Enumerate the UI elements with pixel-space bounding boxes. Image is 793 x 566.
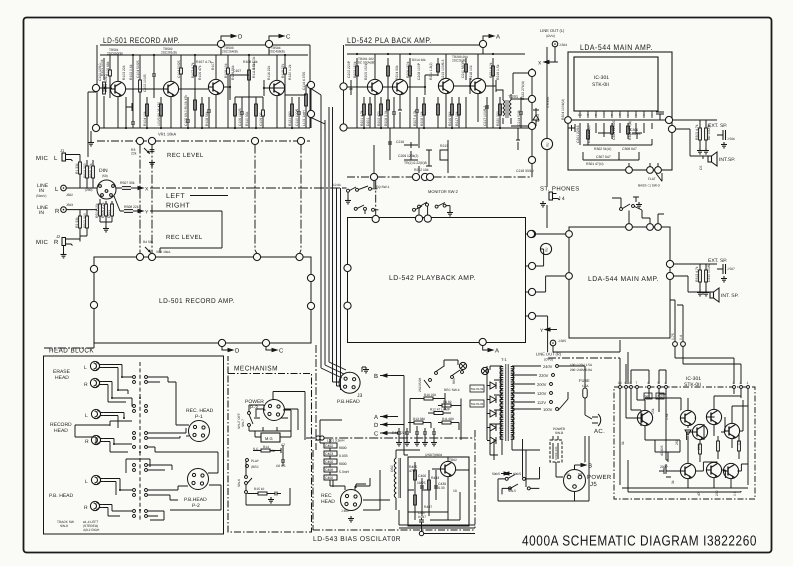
svg-text:C104 50/25: C104 50/25 <box>136 60 140 78</box>
vu meter upper <box>541 138 552 149</box>
svg-text:R206 150k: R206 150k <box>406 61 410 78</box>
svg-text:BASS ⊂| SW-3: BASS ⊂| SW-3 <box>638 184 660 188</box>
arrow Y out <box>138 209 143 212</box>
svg-text:C106 100/3: C106 100/3 <box>238 108 242 126</box>
node 9 bottom <box>412 173 419 180</box>
wire J301 to osc <box>333 480 390 500</box>
svg-text:EQ.SW-1: EQ.SW-1 <box>376 185 390 189</box>
tiny value labels LD-542 upper band <box>364 61 500 80</box>
svg-text:3: 3 <box>733 381 735 385</box>
vu meter lower <box>540 243 551 254</box>
transistor Q7 <box>706 462 721 477</box>
svg-text:10/25: 10/25 <box>417 481 426 485</box>
svg-text:0.5 47k: 0.5 47k <box>546 97 550 108</box>
svg-text:AC.: AC. <box>594 428 605 435</box>
svg-text:TR(J) 0.22(K)B: TR(J) 0.22(K)B <box>404 161 428 165</box>
svg-text:R214 10k: R214 10k <box>412 58 426 62</box>
svg-text:IN: IN <box>39 210 44 216</box>
ground <box>721 276 727 282</box>
svg-text:TR62: TR62 <box>449 458 457 462</box>
svg-text:R203 150k: R203 150k <box>353 61 357 78</box>
osc box innards <box>408 457 469 520</box>
connector POWER J5 <box>564 465 586 492</box>
node bm1 <box>626 167 633 174</box>
node bm3 <box>655 167 662 174</box>
svg-text:SW-7: SW-7 <box>241 419 245 427</box>
svg-text:680: 680 <box>270 449 276 453</box>
svg-text:R110 33k: R110 33k <box>245 111 249 126</box>
svg-text:12.0k: 12.0k <box>333 183 341 187</box>
svg-text:9: 9 <box>587 113 589 117</box>
arrow D <box>221 34 236 40</box>
svg-text:INT.SP.: INT.SP. <box>719 157 735 163</box>
svg-text:R107 4.7k: R107 4.7k <box>191 62 195 78</box>
svg-text:R108 10k: R108 10k <box>224 63 228 78</box>
svg-text:R9 82: R9 82 <box>443 400 452 404</box>
svg-text:T-1: T-1 <box>501 357 508 362</box>
svg-text:R507 33k: R507 33k <box>120 181 135 185</box>
svg-text:0.33: 0.33 <box>438 486 445 490</box>
svg-text:D202: D202 <box>536 114 540 122</box>
svg-text:R217 10k: R217 10k <box>455 111 459 126</box>
svg-text:0.033+120: 0.033+120 <box>554 446 558 460</box>
IC-301 box <box>574 57 658 111</box>
svg-text:C310 100/6: C310 100/6 <box>707 264 711 282</box>
main amp outer box <box>568 52 672 170</box>
svg-text:10: 10 <box>453 489 457 493</box>
head block box <box>44 356 224 534</box>
ground under DIN <box>103 226 109 232</box>
svg-text:SW-5: SW-5 <box>508 489 516 493</box>
component sticks LD-542 <box>347 54 539 188</box>
svg-text:100/3 R105 470: 100/3 R105 470 <box>157 102 161 126</box>
svg-text:9: 9 <box>625 381 627 385</box>
svg-text:R102 0.6k: R102 0.6k <box>129 64 133 80</box>
jack J1 <box>62 153 73 161</box>
svg-text:REC LEVEL: REC LEVEL <box>167 152 204 159</box>
svg-text:R: R <box>85 439 89 445</box>
svg-text:C202 220P: C202 220P <box>347 60 351 78</box>
transistor TR202 <box>392 79 407 94</box>
svg-text:5: 5 <box>658 381 660 385</box>
connector REC HEAD J-301 <box>341 490 362 511</box>
svg-text:R14: R14 <box>263 445 269 449</box>
node rec box left b <box>90 301 97 308</box>
node 5 bottom <box>251 137 258 144</box>
wire pb top stubs <box>375 181 377 216</box>
node 3 right <box>307 81 314 88</box>
svg-text:POWER: POWER <box>587 474 612 481</box>
svg-text:C301 22/16: C301 22/16 <box>576 125 580 143</box>
svg-text:(2SD7)8604: (2SD7)8604 <box>425 453 442 457</box>
diode rectifier column <box>487 366 496 444</box>
connector J3 PB head <box>339 372 360 393</box>
svg-text:PLAY: PLAY <box>251 459 260 463</box>
AC plug <box>592 414 601 426</box>
node 5 right <box>528 95 535 102</box>
switch contacts head block <box>133 376 148 518</box>
node 8 top <box>217 40 224 47</box>
svg-text:R107 4.7k: R107 4.7k <box>196 60 212 64</box>
cap row with grounds <box>397 426 436 440</box>
svg-text:C308 047: C308 047 <box>622 147 637 151</box>
svg-text:J 506: J 506 <box>727 137 735 141</box>
svg-text:(50mV): (50mV) <box>36 194 46 198</box>
svg-text:120V: 120V <box>537 391 547 396</box>
svg-text:C304 220/25: C304 220/25 <box>612 120 616 140</box>
svg-text:J502: J502 <box>66 193 73 197</box>
svg-text:R2 33k: R2 33k <box>75 217 79 228</box>
wire bottom rail <box>344 90 533 128</box>
svg-text:J 507: J 507 <box>727 267 735 271</box>
pin circles top <box>619 386 750 389</box>
ground <box>447 210 453 216</box>
jack J2 <box>62 238 73 246</box>
jack J4 <box>549 192 560 200</box>
svg-text:A: A <box>495 348 499 355</box>
switch above main box <box>620 208 623 211</box>
svg-text:R12 47 LAMP: R12 47 LAMP <box>430 408 450 412</box>
input cap C101 <box>100 84 111 92</box>
svg-text:P-3: P-3 <box>250 405 258 411</box>
node bus circles left of main box <box>527 230 534 237</box>
svg-text:J 4: J 4 <box>558 196 565 202</box>
svg-text:VR2 10kA: VR2 10kA <box>156 250 171 254</box>
svg-text:7: 7 <box>636 381 638 385</box>
node rec box top 1 <box>296 253 303 260</box>
svg-text:R303 4.7k: R303 4.7k <box>695 124 699 140</box>
LD-501 record amp box <box>94 257 311 343</box>
node pb bottom 5 <box>479 338 486 345</box>
svg-text:C102 100/3: C102 100/3 <box>143 74 147 92</box>
node small circle bottom <box>419 531 423 535</box>
node rec box top 5 <box>253 253 260 260</box>
svg-text:(200): (200) <box>85 188 92 192</box>
svg-text:L: L <box>85 413 88 419</box>
svg-text:LDA-544 MAIN AMP.: LDA-544 MAIN AMP. <box>580 43 653 52</box>
svg-text:4: 4 <box>665 381 667 385</box>
svg-text:200: 200 <box>715 490 719 496</box>
wire top rail <box>344 45 480 83</box>
LD-542 playback amp box <box>348 218 526 343</box>
svg-text:R: R <box>54 239 59 246</box>
tiny value labels LD-501 <box>100 59 306 126</box>
svg-text:C105 6/10 R106 47k: C105 6/10 R106 47k <box>184 95 188 126</box>
svg-text:J503: J503 <box>66 203 73 207</box>
wire top rail under title <box>97 45 310 128</box>
svg-text:0.4: 0.4 <box>679 335 683 340</box>
int sp lower <box>710 288 719 302</box>
svg-text:HEAD: HEAD <box>321 499 335 505</box>
svg-text:R402 220: R402 220 <box>392 431 407 435</box>
svg-text:ST. PHONES: ST. PHONES <box>540 186 580 193</box>
svg-text:EXT. SP.: EXT. SP. <box>708 258 727 264</box>
wires y=352 LINE OUT R <box>548 340 620 358</box>
node out B <box>668 125 675 132</box>
jack J-506 <box>717 130 726 140</box>
svg-text:15k: 15k <box>651 408 655 414</box>
wire record box bottom to head block <box>44 343 95 348</box>
transformer T-201 <box>496 90 511 124</box>
svg-text:J-504: J-504 <box>559 43 567 47</box>
ground <box>636 202 642 208</box>
svg-text:R218 10k: R218 10k <box>469 65 473 80</box>
svg-text:500/5: 500/5 <box>492 472 500 476</box>
svg-text:R503 330: R503 330 <box>83 163 87 178</box>
svg-text:LD-542 PLAYBACK AMP.: LD-542 PLAYBACK AMP. <box>389 275 476 282</box>
svg-text:R108 56k: R108 56k <box>205 111 209 126</box>
wire vertical bus x=547 <box>547 47 555 228</box>
LDA-544 main amp lower box <box>569 227 670 338</box>
svg-text:C103 10/10: C103 10/10 <box>104 74 108 92</box>
transistor TR504 <box>269 80 284 95</box>
record lamp <box>459 362 466 369</box>
ground <box>345 198 351 204</box>
svg-text:STK-0II: STK-0II <box>684 382 701 388</box>
svg-text:D: D <box>238 34 243 41</box>
int sp upper <box>708 152 717 166</box>
node 10 left <box>340 124 347 131</box>
node pb left b <box>344 302 351 309</box>
svg-text:C213 100/6.3: C213 100/6.3 <box>441 60 445 80</box>
node 2 right <box>307 110 314 117</box>
transistor Q8 <box>723 463 738 478</box>
ground at J3 <box>362 367 366 372</box>
main amp inner wires <box>568 112 665 167</box>
svg-text:2: 2 <box>740 381 742 385</box>
svg-text:200V: 200V <box>537 382 547 387</box>
arrow A <box>483 34 494 40</box>
play/rec contacts <box>246 459 249 462</box>
svg-text:2SC650(B): 2SC650(B) <box>107 51 123 55</box>
transistor TR204 <box>470 78 485 93</box>
resistor sticks ext sp <box>673 120 717 148</box>
center vertical bus wires <box>311 89 346 390</box>
svg-text:R506 2.2k: R506 2.2k <box>101 202 105 218</box>
jack J-505 <box>550 340 556 346</box>
svg-text:C406: C406 <box>325 476 333 480</box>
svg-text:C211 560P: C211 560P <box>461 61 465 78</box>
svg-text:R107: R107 <box>211 62 215 70</box>
node rec box bottom 6 <box>218 339 225 346</box>
svg-text:P.B.HEAD: P.B.HEAD <box>337 399 360 405</box>
svg-text:470: 470 <box>409 469 415 473</box>
svg-text:L: L <box>54 155 58 162</box>
svg-text:C210: C210 <box>396 140 404 144</box>
svg-text:1: 1 <box>747 381 749 385</box>
mechanism bottom wires <box>254 392 305 441</box>
svg-text:5: 5 <box>619 113 621 117</box>
tiny labels input <box>75 163 139 228</box>
svg-text:0.033: 0.033 <box>339 454 348 458</box>
svg-text:R121 680: R121 680 <box>288 111 292 126</box>
ground <box>268 497 274 503</box>
svg-text:D: D <box>374 422 379 429</box>
svg-text:1.5A: 1.5A <box>582 384 589 388</box>
bias bottom wires <box>396 450 475 534</box>
arrow D bottom <box>222 347 233 352</box>
SW-05-02 boxes <box>470 385 484 392</box>
node 2 right <box>528 122 535 129</box>
svg-text:R116 22k: R116 22k <box>267 65 271 80</box>
resistor sticks IC bottom <box>699 434 741 462</box>
svg-text:112V: 112V <box>537 400 546 405</box>
svg-text:100/25: 100/25 <box>630 132 640 136</box>
svg-text:SW-05-02: SW-05-02 <box>471 387 484 391</box>
svg-text:R216 56k: R216 56k <box>448 111 452 126</box>
svg-text:HEAD: HEAD <box>54 428 68 434</box>
svg-text:IC-301: IC-301 <box>594 75 609 81</box>
svg-text:R211 1.8(J): R211 1.8(J) <box>429 63 433 80</box>
svg-text:R104 10k: R104 10k <box>143 111 147 126</box>
bias osc dash boundary <box>313 430 475 530</box>
svg-text:R508 22k: R508 22k <box>124 205 139 209</box>
svg-text:4(3-2 RIGH: 4(3-2 RIGH <box>83 528 100 532</box>
svg-text:R10 220: R10 220 <box>424 393 436 397</box>
svg-text:5.3mH: 5.3mH <box>339 470 350 474</box>
node main left circle2 <box>566 273 573 280</box>
svg-text:2SC05/28: 2SC05/28 <box>418 378 422 392</box>
svg-text:C110 100/6: C110 100/6 <box>295 109 299 126</box>
ground <box>540 201 546 207</box>
svg-text:C104 50/25: C104 50/25 <box>177 60 181 78</box>
ground <box>61 252 67 258</box>
svg-text:MIC: MIC <box>36 239 48 246</box>
ground <box>703 148 709 154</box>
svg-text:200~240V 0.8A: 200~240V 0.8A <box>570 368 593 372</box>
svg-text:R219 1.5k: R219 1.5k <box>496 64 500 80</box>
switch contact <box>133 376 136 379</box>
connector POWER P-3 <box>264 400 285 421</box>
svg-text:REC LEVEL: REC LEVEL <box>166 234 203 241</box>
wire lower dash rail <box>347 176 532 178</box>
svg-text:HEAD: HEAD <box>55 375 69 381</box>
svg-text:R407: R407 <box>424 505 432 509</box>
svg-text:6: 6 <box>611 113 613 117</box>
svg-text:8: 8 <box>630 381 632 385</box>
svg-text:LINE OUT (L): LINE OUT (L) <box>540 28 565 33</box>
svg-text:R212 10k: R212 10k <box>414 168 429 172</box>
wire Y line <box>150 211 222 253</box>
node 9 left <box>92 84 99 91</box>
svg-text:2SC264(B): 2SC264(B) <box>222 49 238 53</box>
svg-text:R304 100k(U): R304 100k(U) <box>561 99 565 120</box>
resistor network R9-R13 <box>408 393 461 440</box>
svg-text:R120 1.2k: R120 1.2k <box>288 64 292 80</box>
transformer taps <box>490 366 541 455</box>
svg-text:RIGHT: RIGHT <box>166 203 191 210</box>
svg-text:56k: 56k <box>645 395 651 399</box>
svg-text:7: 7 <box>603 113 605 117</box>
arrow B out <box>575 463 587 466</box>
svg-text:STK-0II: STK-0II <box>592 82 609 88</box>
svg-text:A: A <box>374 414 378 421</box>
svg-text:R103 22k: R103 22k <box>122 65 126 80</box>
svg-text:LINE OUT (R): LINE OUT (R) <box>536 352 562 357</box>
svg-text:LDA-544 MAIN AMP.: LDA-544 MAIN AMP. <box>588 276 659 283</box>
svg-text:L: L <box>85 479 88 485</box>
svg-text:C109 OJ: C109 OJ <box>259 112 263 126</box>
svg-text:R13 330: R13 330 <box>413 417 425 421</box>
svg-text:T 201: T 201 <box>508 94 519 99</box>
node bm2 <box>647 167 654 174</box>
arrow A bottom <box>483 346 493 352</box>
horizontal links <box>100 83 110 93</box>
contact <box>347 189 350 192</box>
transistor Q2 <box>680 410 695 425</box>
svg-text:SW-B: SW-B <box>555 431 563 435</box>
node 1 left <box>340 83 347 90</box>
svg-text:C406: C406 <box>418 474 426 478</box>
junction dots head block <box>111 376 141 511</box>
pilot lamp <box>481 367 488 374</box>
svg-text:C: C <box>374 431 379 438</box>
node 8 bottom <box>421 173 428 180</box>
svg-text:R207 4.7k: R207 4.7k <box>413 110 417 126</box>
tiny value labels LD-542 <box>347 60 540 173</box>
transistor TR503 <box>208 79 223 94</box>
node rec box bottom 4 <box>262 339 269 346</box>
svg-text:R502 330: R502 330 <box>83 213 87 228</box>
ground <box>697 148 703 154</box>
output wires down to IC <box>673 342 678 347</box>
svg-text:100V: 100V <box>543 407 553 412</box>
switch contact <box>505 477 508 480</box>
tap contacts <box>556 365 559 368</box>
selector lever <box>558 392 568 411</box>
svg-text:R220 330: R220 330 <box>496 111 500 126</box>
svg-text:R222 27k(U): R222 27k(U) <box>521 81 525 100</box>
mechanism dash box <box>228 374 312 533</box>
transistor Q6 <box>680 463 695 478</box>
svg-text:VU: VU <box>545 247 549 252</box>
svg-text:R: R <box>84 505 88 511</box>
wires J3 down to stack <box>320 376 404 511</box>
svg-text:VU: VU <box>546 142 550 147</box>
svg-text:8Ω 10Ω(B): 8Ω 10Ω(B) <box>707 124 711 140</box>
svg-text:P-2: P-2 <box>192 503 200 509</box>
node pb right stack <box>528 230 535 237</box>
svg-text:R213: R213 <box>440 144 448 148</box>
extra stubs LD-542 <box>482 48 484 54</box>
switch contact <box>619 386 622 389</box>
svg-text:R201 4.7k: R201 4.7k <box>360 110 364 126</box>
jack J-507 <box>717 264 726 274</box>
node main right circle2 <box>666 272 673 279</box>
node main left circle <box>566 231 573 238</box>
node main top circles <box>626 224 633 231</box>
svg-text:R: R <box>55 208 60 215</box>
svg-text:LD-543 BIAS OSCILAT0R: LD-543 BIAS OSCILAT0R <box>313 536 401 543</box>
svg-text:C214 50/6: C214 50/6 <box>517 110 521 126</box>
svg-text:1.5k: 1.5k <box>665 413 669 420</box>
svg-text:SW-8: SW-8 <box>60 524 68 528</box>
svg-text:J5: J5 <box>590 481 597 488</box>
svg-text:40-805: 40-805 <box>660 445 664 456</box>
wire mech top to record box <box>222 347 266 350</box>
svg-text:C218 33/10: C218 33/10 <box>516 169 534 173</box>
svg-text:VR1 10kA: VR1 10kA <box>158 132 176 137</box>
svg-text:3k: 3k <box>621 441 625 445</box>
svg-text:OSC: OSC <box>390 464 394 472</box>
svg-text:C107: C107 <box>233 69 241 73</box>
svg-text:R111 1.5k: R111 1.5k <box>252 63 256 78</box>
svg-text:C114 4.7/25: C114 4.7/25 <box>302 72 306 90</box>
component stack C40x <box>324 439 337 486</box>
node 1b right <box>528 156 535 163</box>
wire right edge <box>310 89 312 128</box>
svg-text:C400: C400 <box>325 460 333 464</box>
